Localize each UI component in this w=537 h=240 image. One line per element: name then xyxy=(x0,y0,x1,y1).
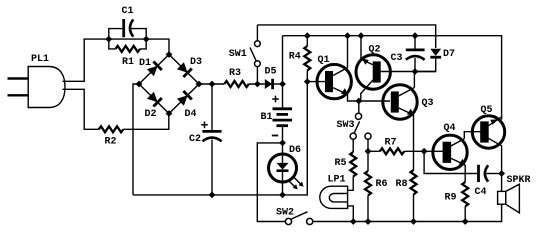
resistor R2 xyxy=(99,114,169,133)
svg-text:D5: D5 xyxy=(265,67,277,78)
diode D5 xyxy=(265,79,283,89)
node C2 bottom xyxy=(209,192,216,199)
wire R3 to D5 xyxy=(249,83,265,85)
transistor Q4 xyxy=(433,135,467,169)
svg-text:SW1: SW1 xyxy=(229,49,247,60)
svg-text:R5: R5 xyxy=(335,158,347,169)
resistor R3 xyxy=(224,81,249,87)
svg-text:Q3: Q3 xyxy=(422,98,434,109)
resistor R6 xyxy=(365,171,371,222)
node R8 bottom rail xyxy=(410,218,417,225)
diode D4 xyxy=(177,91,192,106)
switch SW1 xyxy=(250,25,260,84)
svg-text:C3: C3 xyxy=(391,53,403,64)
capacitor C2 xyxy=(202,84,221,195)
diode D7 xyxy=(415,49,441,72)
svg-text:R1: R1 xyxy=(122,57,134,68)
node bridge top xyxy=(166,51,173,58)
node C1 left xyxy=(105,36,112,43)
wire Q2 base row xyxy=(381,71,436,73)
transistor Q3 xyxy=(383,85,417,119)
battery B1 xyxy=(273,84,293,143)
transistor Q5 xyxy=(472,116,504,148)
wire negative rail A xyxy=(133,82,307,195)
wire main positive row xyxy=(199,83,224,85)
resistor R9 xyxy=(462,182,468,222)
bridge diamond wires xyxy=(139,55,199,114)
svg-text:D1: D1 xyxy=(139,58,151,69)
node lamp bottom rail xyxy=(350,218,357,225)
wire top rail1 SW1 to D7 xyxy=(257,25,435,48)
wire plug bottom output xyxy=(63,89,99,129)
svg-text:R6: R6 xyxy=(376,179,388,190)
node R6 bottom rail xyxy=(365,218,372,225)
svg-text:Q2: Q2 xyxy=(369,45,381,56)
wire B1 minus to SW2 xyxy=(257,143,285,222)
node D6 bottom xyxy=(279,192,286,199)
svg-text:SPKR: SPKR xyxy=(507,175,531,186)
label C2 plus xyxy=(201,122,208,129)
wire Q1 base xyxy=(307,81,326,83)
capacitor C1 xyxy=(109,19,146,39)
svg-text:R7: R7 xyxy=(385,138,397,149)
wire Q3 collector xyxy=(413,72,415,88)
wire plug top output xyxy=(63,39,170,81)
node Q4 base xyxy=(421,148,428,155)
wire Q3 emitter to R8 xyxy=(413,114,415,170)
svg-text:B1: B1 xyxy=(261,112,273,123)
node D5 out B1 plus xyxy=(279,81,286,88)
node bridge bottom xyxy=(166,110,173,117)
node Q1 Q2 Q3 SW3 xyxy=(355,98,362,105)
svg-text:R4: R4 xyxy=(289,52,301,63)
capacitor C3 xyxy=(406,36,425,72)
LED D6 xyxy=(269,143,304,195)
node R7 R6 SW3 xyxy=(365,148,372,155)
svg-text:D7: D7 xyxy=(443,49,455,60)
label B1 plus xyxy=(272,96,279,103)
svg-text:D3: D3 xyxy=(190,57,202,68)
svg-text:R9: R9 xyxy=(445,193,457,204)
resistor R8 xyxy=(411,170,417,222)
transistor Q1 xyxy=(317,64,351,98)
capacitor C4 xyxy=(479,165,502,182)
wire node to Q3 base xyxy=(359,100,390,102)
resistor R4 xyxy=(304,36,310,82)
node C3 top rail2 xyxy=(412,32,419,39)
svg-text:SW2: SW2 xyxy=(276,208,294,219)
svg-text:SW3: SW3 xyxy=(337,120,355,131)
svg-text:C4: C4 xyxy=(475,187,487,198)
diode D2 xyxy=(147,92,162,107)
svg-text:D6: D6 xyxy=(289,145,301,156)
node bridge right xyxy=(196,81,203,88)
wire D5 node up to rail2 xyxy=(282,36,284,84)
svg-text:D2: D2 xyxy=(145,109,157,120)
node C4 speaker xyxy=(498,170,505,177)
wire Q4 emitter to R9 xyxy=(464,165,466,182)
speaker SPKR xyxy=(498,184,520,213)
svg-text:C1: C1 xyxy=(122,6,134,17)
node R9 bottom rail xyxy=(462,218,469,225)
node Q2 emitter rail2 xyxy=(358,32,365,39)
lamp LP1 xyxy=(320,186,354,221)
node C1 right xyxy=(143,36,150,43)
wire bottom rail B xyxy=(313,204,502,221)
transistor Q2 xyxy=(356,55,390,101)
switch SW2 xyxy=(285,212,312,225)
svg-text:R3: R3 xyxy=(229,68,241,79)
diode D1 xyxy=(147,62,162,77)
node SW1 tap xyxy=(254,81,261,88)
svg-text:Q4: Q4 xyxy=(444,123,456,134)
label B1 minus xyxy=(272,135,278,137)
wire bridge left to negative rail xyxy=(133,84,139,195)
node B1 minus D6 top xyxy=(279,140,286,147)
wire Q1 emitter to node xyxy=(348,94,359,101)
node bridge left xyxy=(136,81,143,88)
svg-text:LP1: LP1 xyxy=(328,175,346,186)
diode D3 xyxy=(177,62,192,77)
wire Q1 collector xyxy=(347,36,349,68)
plug PL1 xyxy=(8,67,66,108)
node R4 top xyxy=(304,32,311,39)
node C2 tap xyxy=(209,81,216,88)
svg-text:R2: R2 xyxy=(105,137,117,148)
wire Q5 collector down xyxy=(501,146,503,192)
wire positive rail2 xyxy=(283,36,502,120)
wire Q4 collector to Q5 base xyxy=(464,132,480,139)
svg-text:C2: C2 xyxy=(189,134,201,145)
svg-text:Q1: Q1 xyxy=(318,55,330,66)
wire Q2 emitter to rail2 xyxy=(360,36,362,60)
resistor R1 xyxy=(109,39,146,52)
svg-text:PL1: PL1 xyxy=(31,54,49,65)
resistor R5 xyxy=(348,152,357,190)
node Q1 collector rail2 xyxy=(344,32,351,39)
node C3 bottom row xyxy=(412,68,419,75)
resistor R7 xyxy=(368,148,443,154)
svg-text:R8: R8 xyxy=(396,179,408,190)
wire Q4 base to C4 xyxy=(424,151,477,173)
svg-text:D4: D4 xyxy=(185,109,197,120)
wire Q5 emitter up xyxy=(501,117,503,119)
switch SW3 xyxy=(350,101,371,171)
svg-text:Q5: Q5 xyxy=(481,105,493,116)
node R4 bottom Q1 base xyxy=(304,78,311,85)
